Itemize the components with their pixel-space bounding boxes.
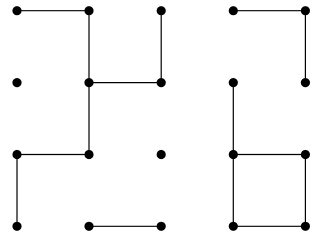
node B1 xyxy=(84,6,93,15)
wire D3-D4 xyxy=(232,155,234,227)
node E3 xyxy=(301,150,310,159)
wire B4-C4 xyxy=(89,225,161,227)
node A3 xyxy=(12,150,21,159)
node D1 xyxy=(229,6,238,15)
node C3 xyxy=(157,150,166,159)
wire E1-E2 xyxy=(304,11,306,83)
node C1 xyxy=(157,6,166,15)
wire B2-C2 xyxy=(89,82,161,84)
node D4 xyxy=(229,222,238,231)
wire D1-E1 xyxy=(233,10,305,12)
wire B2-B3 xyxy=(88,83,90,155)
node E2 xyxy=(301,78,310,87)
node B4 xyxy=(84,222,93,231)
wire D4-E4 xyxy=(233,225,305,227)
node A2 xyxy=(12,78,21,87)
wire D2-D3 xyxy=(232,83,234,155)
node C4 xyxy=(157,222,166,231)
wire C1-C2 xyxy=(160,11,162,83)
wire A1-B1 xyxy=(17,10,89,12)
node C2 xyxy=(157,78,166,87)
node E4 xyxy=(301,222,310,231)
node B2 xyxy=(84,78,93,87)
wire A3-B3 xyxy=(17,154,89,156)
node B3 xyxy=(84,150,93,159)
wire D3-E3 xyxy=(233,154,305,156)
node D3 xyxy=(229,150,238,159)
wire E3-E4 xyxy=(304,155,306,227)
node D2 xyxy=(229,78,238,87)
wire B1-B2 xyxy=(88,11,90,83)
node E1 xyxy=(301,6,310,15)
wire A3-A4 xyxy=(16,155,18,227)
node A1 xyxy=(12,6,21,15)
node A4 xyxy=(12,222,21,231)
